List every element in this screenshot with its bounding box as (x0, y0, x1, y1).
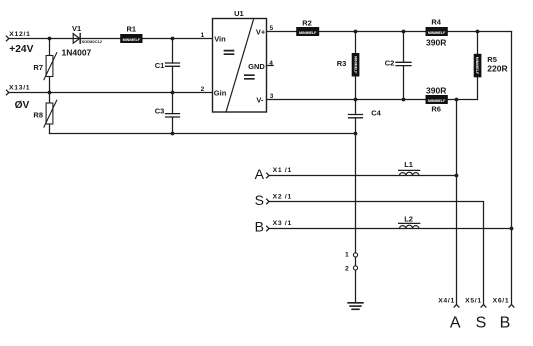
svg-text:A: A (450, 315, 461, 332)
varistor R8 (33, 100, 56, 127)
wire ground stem with C4 (355, 100, 357, 303)
wire V+ rail (267, 31, 512, 33)
wire GND stub pin 4 (267, 65, 274, 67)
resistor R1 (121, 25, 142, 43)
svg-text:V-: V- (256, 95, 264, 104)
svg-text:MINIMELF: MINIMELF (353, 56, 357, 74)
svg-text:X6/1: X6/1 (493, 298, 510, 305)
wire bottom-left return (50, 133, 356, 135)
diode V1 (72, 24, 103, 44)
resistor R2 (297, 18, 319, 35)
svg-text:R3: R3 (337, 59, 347, 68)
node junction return to ground stem (354, 132, 358, 136)
svg-text:R7: R7 (33, 63, 43, 72)
svg-text:R8: R8 (33, 111, 43, 120)
svg-text:R6: R6 (431, 104, 441, 113)
svg-text:B: B (255, 219, 264, 235)
svg-text:220R: 220R (487, 64, 507, 74)
capacitor C3 (155, 107, 180, 118)
wire C1/C3 vertical (172, 39, 174, 134)
wire R7/R8 vertical (49, 39, 51, 134)
varistor R7 (33, 53, 56, 80)
svg-text:1: 1 (201, 32, 205, 39)
svg-text:1N4007: 1N4007 (62, 47, 92, 57)
wire phase A (269, 175, 457, 177)
svg-text:X5/1: X5/1 (465, 298, 482, 305)
node junction C2 top (402, 30, 406, 34)
svg-text:X12/1: X12/1 (9, 31, 30, 38)
node junction C2 bottom (402, 98, 406, 102)
svg-text:SOD80C12: SOD80C12 (82, 39, 103, 44)
svg-text:X13/1: X13/1 (9, 84, 30, 91)
svg-text:R1: R1 (127, 25, 137, 34)
capacitor C1 (155, 61, 180, 70)
svg-text:+24V: +24V (9, 44, 33, 55)
svg-text:B: B (500, 315, 511, 332)
svg-text:V1: V1 (72, 24, 81, 33)
node junction R3 top (354, 30, 358, 34)
svg-text:Gin: Gin (214, 88, 227, 97)
wire phase S (269, 202, 484, 305)
svg-text:R4: R4 (431, 17, 441, 26)
wire phase B (269, 228, 512, 230)
svg-text:2: 2 (345, 266, 349, 273)
svg-text:C4: C4 (371, 109, 381, 118)
terminal X6/1 (493, 298, 514, 308)
svg-text:390R: 390R (426, 38, 446, 48)
svg-text:C2: C2 (385, 58, 395, 67)
svg-text:C3: C3 (155, 107, 165, 116)
svg-text:R2: R2 (302, 18, 312, 27)
svg-text:L2: L2 (404, 214, 413, 223)
node junction C1/C3 (171, 91, 175, 95)
svg-text:A: A (255, 166, 265, 182)
node junction C1 top (171, 37, 175, 41)
wire X6 drop (511, 32, 513, 305)
wire R5 vertical (477, 32, 479, 100)
svg-text:X4/1: X4/1 (438, 298, 455, 305)
terminal X3/1 (267, 220, 292, 231)
terminal X1/1 (267, 167, 292, 178)
svg-text:ØV: ØV (15, 100, 30, 111)
svg-text:MINIMELF: MINIMELF (299, 31, 317, 35)
connector pin 1 (345, 251, 358, 258)
wire 0V rail (9, 92, 213, 94)
op-amp U1 (DC/DC converter block) (213, 9, 267, 112)
wire X4 drop (456, 100, 458, 305)
terminal X4/1 (438, 298, 459, 308)
terminal X13/1 (6, 84, 30, 95)
svg-text:MINIMELF: MINIMELF (428, 99, 446, 103)
node junction R7/R8 (48, 91, 52, 95)
svg-text:S: S (255, 192, 264, 208)
svg-text:GND: GND (248, 62, 265, 71)
resistor R6 (426, 96, 447, 114)
inductor L1 (399, 160, 420, 176)
svg-text:L1: L1 (404, 160, 413, 169)
svg-text:U1: U1 (234, 9, 244, 18)
terminal X12/1 (6, 31, 30, 41)
resistor R3 (337, 54, 359, 77)
terminal X5/1 (465, 298, 486, 308)
svg-text:390R: 390R (426, 85, 446, 95)
resistor R5 (474, 54, 507, 77)
node junction R7 top (48, 37, 52, 41)
resistor R4 (426, 17, 447, 35)
svg-text:S: S (476, 315, 487, 332)
terminal X2/1 (267, 193, 292, 204)
wire R3 vertical (355, 32, 357, 100)
node junction R5 top (476, 30, 480, 34)
ground (348, 303, 363, 310)
inductor L2 (399, 214, 420, 228)
node junction R3 bottom (354, 98, 358, 102)
svg-text:1: 1 (345, 251, 349, 258)
svg-text:MINIMELF: MINIMELF (475, 57, 479, 75)
svg-text:V+: V+ (256, 28, 266, 37)
node junction X4 drop (455, 98, 459, 102)
svg-text:Vin: Vin (214, 35, 226, 44)
svg-text:X3 /1: X3 /1 (273, 220, 292, 227)
svg-text:2: 2 (201, 86, 205, 93)
capacitor C2 (385, 58, 411, 67)
wire C2 vertical (403, 32, 405, 100)
connector pin 2 (345, 266, 358, 273)
svg-text:X1 /1: X1 /1 (273, 167, 292, 174)
node junction B to X6 (510, 227, 514, 231)
wire +24V rail (9, 38, 213, 40)
svg-text:C1: C1 (155, 61, 165, 70)
svg-text:MINIMELF: MINIMELF (123, 38, 141, 42)
wire V- rail (267, 99, 478, 101)
svg-text:MINIMELF: MINIMELF (428, 31, 446, 35)
capacitor C4 (349, 109, 382, 118)
node junction A to X4 (455, 174, 459, 178)
svg-text:X2 /1: X2 /1 (273, 193, 292, 200)
node junction C3 bottom (171, 132, 175, 136)
